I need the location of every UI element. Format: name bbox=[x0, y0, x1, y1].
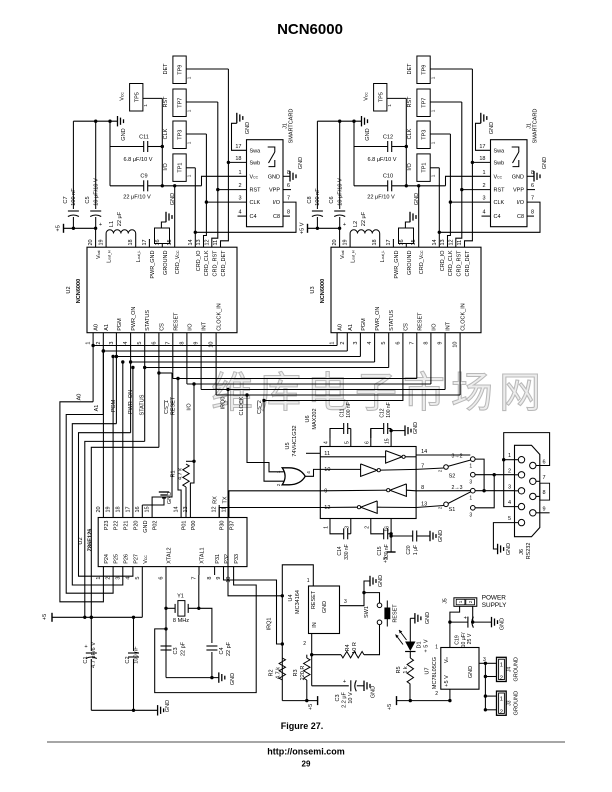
wire pin14 out bbox=[416, 454, 470, 456]
wire U3 pin 5 drop bbox=[388, 333, 390, 368]
svg-text:100 nF: 100 nF bbox=[71, 188, 77, 206]
MAX202 right pin 8 bbox=[421, 485, 424, 491]
svg-text:R1: R1 bbox=[171, 470, 177, 477]
ground (C19) bbox=[492, 617, 506, 630]
wire U3 pin 8 drop bbox=[430, 333, 432, 384]
svg-text:4: 4 bbox=[324, 441, 330, 444]
wire C8 stub bbox=[527, 215, 534, 217]
svg-text:C3: C3 bbox=[173, 647, 179, 654]
svg-text:9: 9 bbox=[216, 577, 222, 580]
R3 labels bbox=[293, 666, 306, 681]
svg-text:1: 1 bbox=[500, 696, 503, 702]
svg-text:6.8 μF/10 V: 6.8 μF/10 V bbox=[367, 157, 396, 163]
MAX202 top pin 15 bbox=[385, 438, 392, 447]
svg-text:U2: U2 bbox=[78, 537, 84, 544]
svg-text:DET: DET bbox=[163, 63, 169, 75]
svg-text:5: 5 bbox=[135, 577, 141, 580]
wire DET net TP9-pin11 bbox=[221, 69, 231, 247]
svg-text:8: 8 bbox=[421, 485, 424, 491]
svg-text:6: 6 bbox=[531, 183, 534, 189]
svg-text:D1: D1 bbox=[417, 641, 423, 648]
capacitor C2 100nF bbox=[125, 617, 140, 710]
wire CS_2 drop dot bbox=[262, 399, 265, 402]
J6 pin7-8 jumper box bbox=[536, 481, 550, 500]
MCU top pin 17 P20 bbox=[125, 366, 139, 530]
IC U2 Z86E126 body (MCU) bbox=[78, 518, 247, 567]
footer rule bbox=[47, 741, 565, 743]
wire I/O drop to MCU P00 bbox=[190, 382, 195, 505]
svg-text:XTAL2: XTAL2 bbox=[167, 547, 173, 563]
J1 pin 3 CLK bbox=[238, 196, 260, 207]
capacitor C4 22pF bbox=[206, 641, 232, 677]
MAX202 top pin 6 bbox=[364, 429, 371, 447]
resistor R3 220R bbox=[304, 655, 310, 701]
svg-text:9: 9 bbox=[543, 507, 546, 513]
wire U2 pin 9 drop bbox=[200, 333, 202, 390]
svg-text:C6: C6 bbox=[329, 196, 335, 203]
U2 bottom pin 10 label bbox=[209, 303, 223, 347]
svg-text:18: 18 bbox=[128, 239, 134, 245]
ground (C1/C2) bbox=[91, 700, 171, 716]
J1 card detect switch bbox=[512, 147, 519, 167]
svg-text:+ 5 V: + 5 V bbox=[424, 639, 430, 652]
J1 right pin 7 I/O bbox=[273, 196, 290, 207]
svg-text:PWR_GND: PWR_GND bbox=[150, 250, 156, 278]
crystal Y1 8 MHz bbox=[173, 594, 189, 624]
svg-text:1: 1 bbox=[186, 109, 191, 112]
wire S2/S1 tie bbox=[475, 475, 494, 508]
U2 bottom pin 1 label bbox=[86, 324, 100, 344]
MCU top pin 15 P02 bbox=[145, 505, 159, 530]
svg-text:STATUS: STATUS bbox=[389, 310, 395, 331]
svg-text:GROUND: GROUND bbox=[407, 250, 413, 274]
svg-text:+5: +5 bbox=[308, 704, 314, 710]
capacitor C3 22pF bbox=[161, 641, 187, 656]
wire U2 pin 5 drop bbox=[144, 333, 146, 442]
wire PGM to MCU staircase bbox=[72, 424, 123, 585]
U3 bottom pin 5 label bbox=[381, 310, 395, 345]
svg-text:C14: C14 bbox=[337, 546, 343, 555]
svg-text:6: 6 bbox=[159, 577, 165, 580]
svg-text:17: 17 bbox=[235, 144, 241, 150]
ground (top rail) bbox=[362, 116, 372, 141]
wire card I/O route bbox=[195, 202, 296, 232]
svg-text:P02: P02 bbox=[153, 521, 159, 531]
svg-text:CRD_CLK: CRD_CLK bbox=[204, 250, 210, 276]
wire CLOCK drop to gate bbox=[245, 393, 283, 472]
wire U2 pin 2 drop bbox=[102, 333, 104, 415]
svg-text:PGM: PGM bbox=[111, 399, 117, 412]
svg-text:2.2 μF: 2.2 μF bbox=[342, 692, 348, 708]
MAX202 right pin 7 bbox=[421, 463, 424, 469]
capacitor C11 6.8uF bbox=[110, 135, 164, 164]
connector J5 bbox=[443, 598, 477, 607]
svg-text:GROUND: GROUND bbox=[163, 250, 169, 274]
MCU bottom pin 9 P32 bbox=[216, 554, 230, 580]
svg-text:8: 8 bbox=[207, 577, 213, 580]
test point TP9 bbox=[407, 56, 473, 84]
MAX202 bottom pin 16 bbox=[385, 526, 391, 532]
svg-text:100 nF: 100 nF bbox=[315, 188, 321, 206]
svg-text:29: 29 bbox=[302, 760, 311, 769]
MAX202 bottom pin 3 bbox=[344, 526, 350, 529]
wire U3 pin 10 drop bbox=[459, 333, 461, 395]
wire top gnd rail bbox=[73, 120, 117, 123]
wire U4 pin3 to gnd bbox=[340, 575, 385, 606]
svg-text:12: 12 bbox=[212, 506, 218, 512]
svg-text:3: 3 bbox=[109, 342, 115, 345]
svg-text:8: 8 bbox=[179, 342, 185, 345]
svg-text:RESET: RESET bbox=[173, 312, 179, 331]
svg-text:GND: GND bbox=[230, 673, 236, 685]
IC U2 NCN6000 body bbox=[66, 247, 237, 333]
MCU bottom pin 3 P26 bbox=[115, 554, 129, 580]
svg-text:INT: INT bbox=[202, 321, 208, 331]
test point TP1 bbox=[163, 154, 195, 182]
svg-text:C1: C1 bbox=[83, 656, 89, 663]
svg-text:TX: TX bbox=[223, 496, 229, 503]
svg-text:Z86E126: Z86E126 bbox=[88, 529, 94, 552]
svg-text:11: 11 bbox=[213, 240, 219, 246]
svg-text:A1: A1 bbox=[104, 324, 110, 331]
svg-text:+5: +5 bbox=[387, 704, 393, 710]
node A0 label bbox=[77, 394, 83, 401]
U3 bottom pin 7 label bbox=[409, 312, 423, 345]
svg-text:1: 1 bbox=[96, 577, 102, 580]
connector J1 SMARTCARD body bbox=[491, 109, 539, 227]
svg-text:3: 3 bbox=[344, 599, 347, 605]
connector J6 RS232 DB9 shell bbox=[515, 445, 540, 559]
svg-text:6: 6 bbox=[395, 342, 401, 345]
svg-text:1: 1 bbox=[330, 342, 336, 345]
node RESET label bbox=[171, 396, 177, 415]
ground (C3/C4) bbox=[166, 672, 236, 685]
U3 bottom pin 4 label bbox=[367, 307, 381, 345]
wire U7 +5 out bbox=[449, 689, 451, 700]
MAX202 left pin 9 bbox=[324, 488, 327, 494]
svg-text:13: 13 bbox=[196, 239, 202, 245]
wire CS_1 far-left drop bbox=[90, 447, 159, 619]
MAX202 top pin 5 bbox=[344, 438, 351, 447]
wire J6 pin9 stub bbox=[536, 512, 550, 514]
svg-text:10: 10 bbox=[453, 342, 459, 348]
svg-text:TP1: TP1 bbox=[422, 163, 428, 173]
svg-text:1: 1 bbox=[435, 645, 438, 651]
svg-text:16: 16 bbox=[155, 239, 161, 245]
U3 top pin 18 label bbox=[372, 239, 386, 262]
U2 bottom pin 6 label bbox=[151, 323, 165, 345]
svg-text:CLK: CLK bbox=[163, 128, 169, 139]
wire S2-1 to pin3 line bbox=[475, 459, 486, 492]
J1 pin 17 Swa bbox=[235, 144, 261, 155]
U3 top pin 13 label bbox=[440, 239, 454, 276]
svg-text:CS_2: CS_2 bbox=[257, 400, 263, 414]
MCU bottom pin 5 V<tspan font-size="3.4">CC</tspan> bbox=[135, 555, 149, 580]
wire I/O net TP1-pin14 bbox=[194, 168, 197, 247]
svg-text:20: 20 bbox=[88, 239, 94, 245]
resistor R5 1k bbox=[396, 652, 414, 701]
svg-text:2: 2 bbox=[303, 641, 306, 647]
MCU bottom pin 8 P31 bbox=[207, 554, 221, 580]
J6 pin 1 bbox=[508, 453, 525, 463]
svg-text:1: 1 bbox=[186, 174, 191, 177]
svg-text:10: 10 bbox=[209, 342, 215, 348]
or-gate U5 74VHC1G32 bbox=[276, 425, 311, 486]
svg-text:8: 8 bbox=[531, 210, 534, 216]
svg-text:1: 1 bbox=[430, 141, 435, 144]
capacitor C12 6.8uF bbox=[354, 135, 408, 164]
wire CS_2 from U3 pin6 bbox=[264, 333, 403, 482]
MAX202 bottom pin 1 bbox=[324, 526, 330, 529]
test point TP9 bbox=[163, 56, 229, 84]
capacitor C14 330nF bbox=[330, 519, 351, 560]
svg-text:7: 7 bbox=[531, 196, 534, 202]
svg-text:2: 2 bbox=[435, 691, 438, 697]
svg-text:2: 2 bbox=[438, 469, 443, 472]
U2 top pin 18 label bbox=[128, 239, 142, 262]
svg-text:2: 2 bbox=[340, 342, 346, 345]
svg-text:Swa: Swa bbox=[250, 148, 262, 154]
wire IN to R4 bbox=[312, 654, 341, 656]
J1 right pin 6 VPP bbox=[513, 183, 534, 194]
svg-text:GND: GND bbox=[245, 122, 251, 134]
J6 pin 7 bbox=[530, 475, 546, 484]
wire I/O net TP1-pin14 bbox=[438, 168, 441, 247]
MCU bottom pin 7 XTAL1 bbox=[192, 547, 206, 579]
svg-text:P26: P26 bbox=[123, 554, 129, 564]
wire U2 pin 1 drop bbox=[92, 333, 94, 402]
svg-text:4: 4 bbox=[508, 500, 511, 506]
svg-text:2: 2 bbox=[500, 709, 503, 715]
test point TP7 bbox=[407, 89, 462, 117]
svg-text:CS_1: CS_1 bbox=[164, 400, 170, 414]
U3 top pin 20 label bbox=[332, 239, 346, 259]
wire J5 pin1 bbox=[450, 606, 460, 622]
svg-text:RST: RST bbox=[494, 188, 506, 194]
svg-text:RESET: RESET bbox=[311, 590, 317, 609]
svg-text:C4: C4 bbox=[494, 214, 501, 220]
MCU top pin 14 P01 bbox=[174, 505, 188, 530]
svg-text:6: 6 bbox=[364, 441, 370, 444]
node CLOCK label bbox=[239, 396, 245, 415]
switch S2 bbox=[438, 454, 476, 486]
svg-text:18: 18 bbox=[115, 506, 121, 512]
svg-text:J4: J4 bbox=[507, 666, 513, 672]
capacitor C20 1uF bbox=[391, 530, 444, 555]
svg-text:+: + bbox=[464, 616, 467, 622]
ground (card GND pin) bbox=[527, 157, 548, 182]
svg-text:R5: R5 bbox=[396, 666, 402, 673]
svg-text:L1: L1 bbox=[109, 221, 115, 227]
svg-text:I/O: I/O bbox=[407, 163, 413, 171]
ground (MCU pin16) bbox=[142, 492, 173, 505]
node PWR_ON label bbox=[128, 390, 134, 414]
wire CS_1 drop to MCU P02 bbox=[152, 373, 172, 505]
U2 bottom pin 8 label bbox=[179, 323, 193, 345]
J6 pin 5 bbox=[508, 516, 525, 526]
J1 right pin 7 I/O bbox=[517, 196, 534, 207]
U3 bottom pin 10 label bbox=[453, 303, 467, 347]
bus wire A0 bbox=[91, 344, 337, 347]
U3 bottom pin 8 label bbox=[423, 323, 437, 345]
svg-text:1: 1 bbox=[500, 663, 503, 669]
MAX202 top pin 4 bbox=[324, 429, 331, 447]
svg-text:XTAL1: XTAL1 bbox=[200, 547, 206, 563]
bus wire CS_1 bbox=[157, 371, 172, 374]
MCU top pin 12 P30 bbox=[212, 505, 226, 530]
svg-text:Swb: Swb bbox=[250, 160, 261, 166]
svg-text:TP1: TP1 bbox=[178, 163, 184, 173]
J1 pin 3 CLK bbox=[482, 196, 504, 207]
node A1 label bbox=[94, 405, 100, 412]
J1 pin 4 C4 bbox=[482, 210, 500, 221]
svg-text:11: 11 bbox=[324, 451, 330, 457]
ground (card GND pin) bbox=[283, 157, 304, 182]
svg-text:22 μF: 22 μF bbox=[361, 211, 367, 226]
svg-text:13: 13 bbox=[440, 239, 446, 245]
svg-text:15: 15 bbox=[411, 239, 417, 245]
J6 pin 4 bbox=[508, 500, 525, 510]
svg-text:9: 9 bbox=[324, 488, 327, 494]
svg-text:NCN6000: NCN6000 bbox=[277, 21, 343, 38]
capacitor C7 bbox=[63, 121, 79, 230]
wire U7 gnd to J3/J4 bbox=[479, 662, 497, 712]
wire RST net TP7-pin12 bbox=[212, 102, 220, 247]
svg-text:C8: C8 bbox=[307, 196, 313, 203]
svg-text:I/O: I/O bbox=[187, 323, 193, 331]
svg-text:GND: GND bbox=[365, 128, 371, 140]
wire RST line bbox=[218, 189, 247, 191]
svg-text:19: 19 bbox=[99, 239, 105, 245]
svg-text:CLOCK: CLOCK bbox=[239, 396, 245, 415]
U3 bottom pin 2 label bbox=[340, 324, 354, 344]
J1 right pin 8 GND bbox=[268, 170, 290, 181]
MCU bottom pin 6 XTAL2 bbox=[159, 547, 173, 579]
svg-text:100 nF: 100 nF bbox=[134, 646, 140, 664]
U3 bottom pin 6 label bbox=[395, 323, 409, 345]
MAX202 left pin 11 bbox=[324, 451, 330, 457]
node I/O label bbox=[187, 403, 193, 411]
svg-text:14: 14 bbox=[174, 506, 180, 512]
svg-text:1: 1 bbox=[186, 141, 191, 144]
svg-text:I/O: I/O bbox=[273, 200, 281, 206]
svg-text:2: 2 bbox=[364, 526, 370, 529]
label POWER SUPPLY bbox=[482, 595, 507, 610]
svg-text:VPP: VPP bbox=[269, 188, 280, 194]
test point TP3 bbox=[407, 121, 451, 149]
svg-text:P01: P01 bbox=[182, 521, 188, 531]
svg-text:1: 1 bbox=[186, 76, 191, 79]
svg-text:1: 1 bbox=[86, 342, 92, 345]
svg-text:17: 17 bbox=[479, 144, 485, 150]
wire CLK net TP3-pin13 bbox=[448, 134, 453, 247]
ground (card pin 17) bbox=[232, 113, 252, 151]
svg-text:STATUS: STATUS bbox=[145, 310, 151, 331]
svg-text:+: + bbox=[343, 222, 346, 228]
U2 top pin 15 label bbox=[167, 239, 181, 274]
svg-text:TP3: TP3 bbox=[178, 130, 184, 140]
svg-text:U3: U3 bbox=[310, 286, 316, 293]
svg-text:8: 8 bbox=[423, 342, 429, 345]
supply +5 (R2/R3) bbox=[282, 696, 317, 710]
svg-text:GND: GND bbox=[468, 666, 474, 678]
U2 top pin 17 label bbox=[142, 239, 156, 278]
ground (PWR_GND) bbox=[161, 193, 176, 228]
wire STATUS far-left drop bbox=[83, 441, 145, 619]
J1 pin 18 Swb bbox=[479, 156, 504, 167]
svg-text:+5: +5 bbox=[42, 614, 48, 620]
IC U6 MAX202 body bbox=[305, 408, 416, 518]
svg-text:IRQ1: IRQ1 bbox=[267, 618, 273, 631]
svg-text:10 R: 10 R bbox=[352, 642, 358, 654]
svg-text:GND: GND bbox=[425, 612, 431, 624]
connector J4 GROUND bbox=[497, 657, 520, 681]
ground (PWR_GND) bbox=[405, 193, 420, 228]
svg-text:15: 15 bbox=[167, 239, 173, 245]
wire +5 rail to Vbat pin 20 bbox=[64, 227, 98, 248]
svg-text:PGM: PGM bbox=[117, 318, 123, 331]
test point TP5 bbox=[364, 84, 407, 112]
J1 card detect switch bbox=[268, 147, 275, 167]
capacitor C11 (MAX202) 100nF bbox=[330, 402, 352, 438]
U3 top pin 17 label bbox=[386, 239, 400, 278]
U3 top pin 15 label bbox=[411, 239, 425, 274]
svg-text:4: 4 bbox=[125, 577, 131, 580]
svg-text:Swa: Swa bbox=[494, 148, 506, 154]
svg-text:22 pF: 22 pF bbox=[181, 641, 187, 656]
test point TP5 bbox=[120, 84, 163, 112]
svg-text:18: 18 bbox=[372, 239, 378, 245]
svg-text:Figure 27.: Figure 27. bbox=[281, 721, 324, 731]
svg-text:C10: C10 bbox=[383, 174, 393, 180]
wire U3 pin 1 drop bbox=[336, 333, 338, 346]
svg-text:8 MHz: 8 MHz bbox=[173, 618, 189, 624]
wire RST net TP7-pin12 bbox=[456, 102, 464, 247]
svg-text:GND: GND bbox=[378, 575, 384, 587]
resistor R4 10R bbox=[341, 642, 364, 658]
wire S2-3 to J6 pin2 bbox=[475, 473, 514, 476]
svg-text:12: 12 bbox=[324, 505, 330, 511]
wire P32/IRQ1 bbox=[224, 575, 284, 646]
svg-text:CRD_DET: CRD_DET bbox=[465, 250, 471, 277]
svg-text:I/O: I/O bbox=[187, 403, 193, 411]
svg-text:C19: C19 bbox=[455, 635, 461, 645]
MAX202 bottom pin 2 bbox=[364, 526, 370, 529]
svg-text:RS232: RS232 bbox=[526, 543, 532, 560]
MAX202 right pin 14 bbox=[421, 449, 427, 455]
node CS_2 label bbox=[257, 400, 263, 414]
svg-text:CRD_IO: CRD_IO bbox=[196, 250, 202, 272]
wire card I/O route bbox=[439, 202, 540, 232]
svg-text:CRD_IO: CRD_IO bbox=[440, 250, 446, 272]
wire C11/C9 left tie bbox=[353, 121, 355, 186]
svg-text:1: 1 bbox=[430, 76, 435, 79]
svg-text:VPP: VPP bbox=[513, 188, 524, 194]
svg-text:R2: R2 bbox=[269, 669, 275, 676]
svg-text:U7: U7 bbox=[425, 667, 431, 674]
svg-text:330 nF: 330 nF bbox=[344, 544, 350, 560]
svg-text:P00: P00 bbox=[191, 521, 197, 531]
MAX202 left pin 10 bbox=[324, 467, 330, 473]
svg-text:+: + bbox=[99, 222, 102, 228]
svg-text:25 V: 25 V bbox=[467, 633, 473, 644]
node IRQ0 label bbox=[220, 397, 226, 410]
capacitor C6 bbox=[329, 120, 346, 229]
svg-text:STATUS: STATUS bbox=[140, 394, 146, 415]
svg-text:20: 20 bbox=[332, 239, 338, 245]
svg-text:4: 4 bbox=[306, 471, 311, 474]
svg-text:C4: C4 bbox=[250, 214, 257, 220]
